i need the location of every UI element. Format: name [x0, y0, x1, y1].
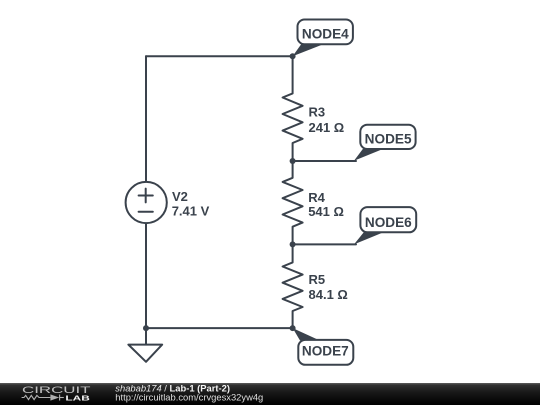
svg-text:NODE7: NODE7 [302, 344, 349, 359]
svg-text:R5: R5 [309, 272, 326, 287]
svg-text:84.1 Ω: 84.1 Ω [309, 287, 348, 302]
svg-text:R4: R4 [308, 190, 325, 205]
svg-text:R3: R3 [309, 105, 326, 120]
svg-text:NODE4: NODE4 [302, 26, 349, 41]
svg-text:541 Ω: 541 Ω [308, 204, 344, 219]
svg-text:NODE5: NODE5 [365, 132, 412, 147]
svg-text:7.41 V: 7.41 V [172, 204, 210, 219]
svg-text:LAB: LAB [65, 394, 90, 403]
svg-text:NODE6: NODE6 [365, 215, 412, 230]
svg-text:V2: V2 [172, 189, 188, 204]
svg-text:241 Ω: 241 Ω [309, 120, 345, 135]
svg-text:http://circuitlab.com/crvgesx3: http://circuitlab.com/crvgesx32yw4g [115, 392, 263, 403]
